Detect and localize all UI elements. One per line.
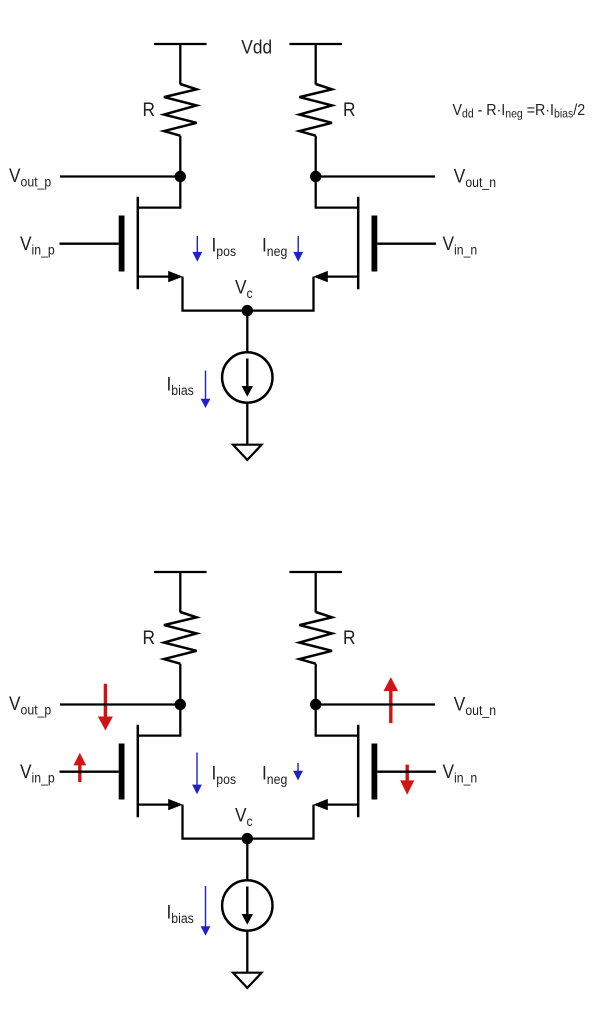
svg-text:Vdd - R·Ineg =R·Ibias/2: Vdd - R·Ineg =R·Ibias/2	[453, 101, 586, 120]
wire: drain of M2a	[138, 705, 181, 736]
current source Ibias (circuit 2)	[222, 880, 272, 930]
wire: M1a source to tail node	[183, 277, 248, 311]
label Vdd (circuit 1 supply net)	[241, 37, 272, 58]
current arrow Ineg (blue, circuit 1)	[293, 236, 303, 262]
value label R (right, circuit 1)	[343, 99, 355, 120]
svg-text:R: R	[343, 627, 355, 648]
node: Vout_n junction (circuit 2)	[310, 699, 321, 710]
wire: current source to ground	[246, 403, 248, 445]
transistor M2a channel bar	[137, 725, 140, 817]
current arrow Ibias (blue, circuit 1)	[201, 371, 211, 409]
label Vc (circuit 2)	[235, 805, 253, 829]
node: Vc tail junction (circuit 1)	[242, 305, 253, 316]
wire: R2a to Vout_p node	[179, 664, 181, 705]
transistor M2b source lead with arrow	[313, 799, 358, 810]
label Ibias (circuit 1)	[167, 374, 194, 398]
label Ineg (circuit 1)	[262, 235, 287, 259]
wire: R1a to Vout_p node	[179, 136, 181, 177]
node: Vc tail junction (circuit 2)	[242, 833, 253, 844]
transistor M1b gate bar	[371, 216, 377, 272]
wire: M2a source to tail node	[183, 805, 248, 839]
wire: Vdd bar to R1b	[315, 44, 317, 85]
wire: gate stub of M1b (Vin_n)	[377, 243, 436, 245]
label Ineg (circuit 2)	[262, 763, 287, 787]
label Ibias (circuit 2)	[167, 902, 194, 926]
annotation: equation Vdd - R*Ineg = R*Ibias/2	[453, 101, 586, 120]
label Vin_n (circuit 2)	[443, 761, 478, 785]
resistor R2a (left load)	[164, 612, 197, 664]
ground symbol (circuit 2)	[233, 973, 262, 988]
svg-text:Vin_p: Vin_p	[20, 233, 55, 257]
wire: M1b source to tail node	[247, 277, 313, 311]
wire: gate stub of M2b (Vin_n)	[377, 771, 436, 773]
label Vout_n (circuit 2)	[454, 694, 496, 718]
label Vin_p (circuit 1)	[20, 233, 55, 257]
svg-text:Vc: Vc	[235, 805, 253, 829]
current source Ibias (circuit 1)	[222, 352, 272, 402]
transistor M2a gate bar	[119, 744, 125, 800]
node: Vout_p junction (circuit 1)	[175, 171, 186, 182]
node: Vout_p junction (circuit 2)	[175, 699, 186, 710]
svg-text:Ineg: Ineg	[262, 763, 287, 787]
value label R (left, circuit 1)	[143, 99, 155, 120]
wire: drain of M1a	[138, 177, 181, 208]
wire: Vdd bar to R1a	[179, 44, 181, 85]
node: Vout_n junction (circuit 1)	[310, 171, 321, 182]
label Vin_n (circuit 1)	[443, 233, 478, 257]
svg-text:Vin_n: Vin_n	[443, 233, 478, 257]
label Vout_p (circuit 1)	[9, 165, 51, 189]
svg-text:Vout_n: Vout_n	[454, 694, 496, 718]
wire: drain of M1b	[316, 177, 359, 208]
wire: Vout_p stub	[60, 703, 180, 705]
svg-text:Ibias: Ibias	[167, 902, 194, 926]
wire: drain of M2b	[316, 705, 359, 736]
svg-text:Vout_n: Vout_n	[454, 166, 496, 190]
wire: Vc to current source	[246, 311, 248, 353]
ground symbol (circuit 1)	[233, 445, 262, 460]
svg-text:Ipos: Ipos	[212, 235, 237, 259]
label Ipos (circuit 2)	[212, 763, 237, 787]
resistor R1b (right load)	[299, 84, 332, 136]
transistor M2b gate bar	[371, 744, 377, 800]
svg-text:Ipos: Ipos	[212, 763, 237, 787]
signal arrow: Vout_n rising (red up)	[384, 677, 399, 723]
resistor R1a (left load)	[164, 84, 197, 136]
svg-text:Vc: Vc	[235, 277, 253, 301]
wire: Vout_n stub	[316, 175, 435, 177]
resistor R2b (right load)	[299, 612, 332, 664]
wire: R1b to Vout_n node	[315, 136, 317, 177]
wire: gate stub of M2a (Vin_p)	[60, 771, 119, 773]
wire: Vdd bar to R2a	[179, 572, 181, 613]
Vdd supply bar (left branch, circuit 1)	[154, 43, 207, 45]
current arrow Ipos increased (blue, circuit 2)	[192, 753, 202, 795]
current arrow Ineg decreased (blue, circuit 2)	[293, 763, 303, 781]
wire: Vout_p stub	[60, 175, 180, 177]
wire: Vout_n stub	[316, 703, 435, 705]
label Ipos (circuit 1)	[212, 235, 237, 259]
wire: M2b source to tail node	[247, 805, 313, 839]
current arrow Ipos (blue, circuit 1)	[192, 236, 202, 262]
wire: R2b to Vout_n node	[315, 664, 317, 705]
wire: Vc to current source	[246, 839, 248, 881]
transistor M1b channel bar	[357, 197, 360, 289]
wire: gate stub of M1a (Vin_p)	[60, 243, 119, 245]
Vdd supply bar (left branch, circuit 2)	[154, 571, 207, 573]
svg-text:Vin_p: Vin_p	[20, 761, 55, 785]
Vdd supply bar (right branch, circuit 2)	[289, 571, 342, 573]
transistor M1b source lead with arrow	[313, 271, 358, 282]
transistor M2a source lead with arrow	[138, 799, 183, 810]
svg-text:Vout_p: Vout_p	[9, 693, 51, 717]
wire: current source to ground	[246, 931, 248, 973]
value label R (left, circuit 2)	[143, 627, 155, 648]
svg-text:Vdd: Vdd	[241, 37, 272, 58]
wire: Vdd bar to R2b	[315, 572, 317, 613]
transistor M2b channel bar	[357, 725, 360, 817]
signal arrow: Vin_n falling (red down)	[400, 765, 414, 795]
svg-text:Ibias: Ibias	[167, 374, 194, 398]
svg-text:R: R	[343, 99, 355, 120]
svg-text:Vout_p: Vout_p	[9, 165, 51, 189]
label Vc (circuit 1)	[235, 277, 253, 301]
signal arrow: Vout_p falling (red down)	[98, 684, 113, 731]
Vdd supply bar (right branch, circuit 1)	[289, 43, 342, 45]
label Vout_p (circuit 2)	[9, 693, 51, 717]
transistor M1a gate bar	[119, 216, 125, 272]
value label R (right, circuit 2)	[343, 627, 355, 648]
svg-text:Ineg: Ineg	[262, 235, 287, 259]
svg-text:R: R	[143, 627, 155, 648]
svg-text:Vin_n: Vin_n	[443, 761, 478, 785]
current arrow Ibias (blue, circuit 2)	[201, 886, 211, 936]
signal arrow: Vin_p rising (red up)	[73, 753, 86, 782]
label Vout_n (circuit 1)	[454, 166, 496, 190]
svg-text:R: R	[143, 99, 155, 120]
transistor M1a channel bar	[137, 197, 140, 289]
label Vin_p (circuit 2)	[20, 761, 55, 785]
transistor M1a source lead with arrow	[138, 271, 183, 282]
